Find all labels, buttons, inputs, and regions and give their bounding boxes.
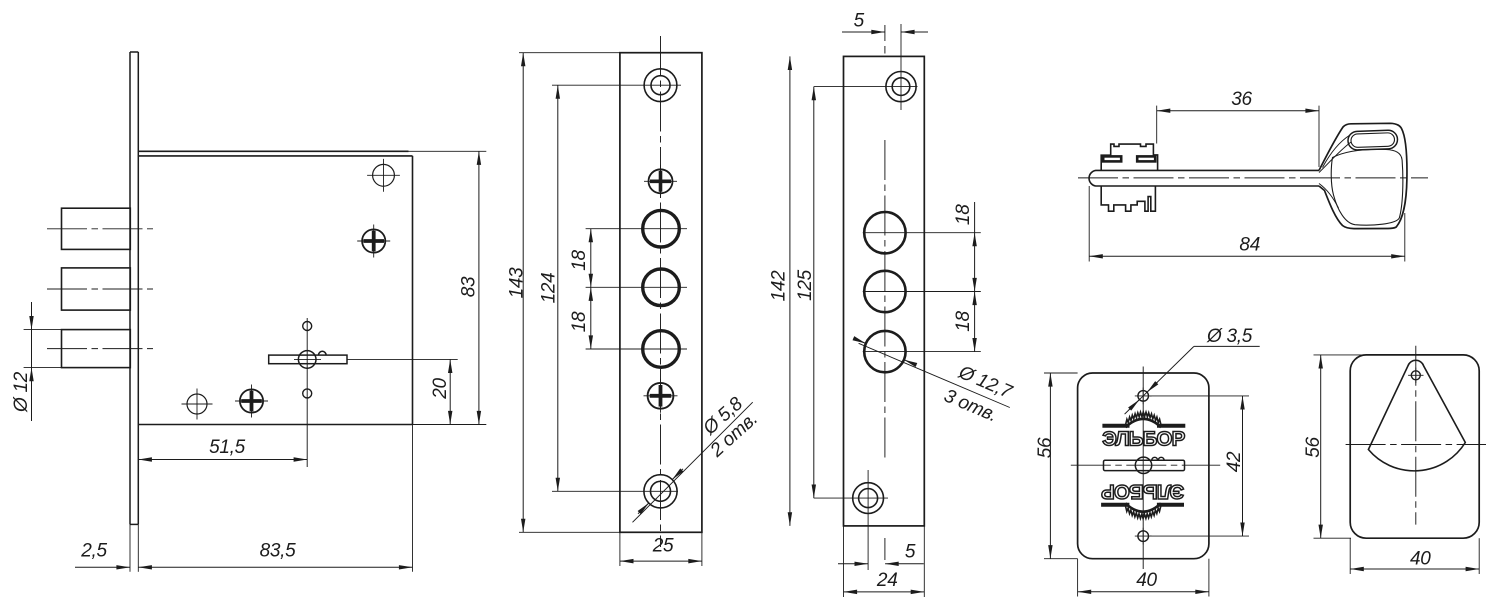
svg-text:25: 25 — [652, 535, 674, 556]
svg-text:51,5: 51,5 — [209, 437, 246, 458]
svg-text:56: 56 — [1303, 437, 1324, 458]
svg-text:24: 24 — [876, 570, 898, 591]
svg-text:40: 40 — [1410, 549, 1431, 570]
svg-text:18: 18 — [569, 311, 590, 332]
svg-text:83: 83 — [459, 276, 480, 297]
svg-text:18: 18 — [953, 204, 974, 225]
svg-text:142: 142 — [769, 270, 790, 302]
svg-text:Ø 12: Ø 12 — [11, 371, 32, 413]
svg-text:5: 5 — [854, 11, 865, 32]
svg-text:143: 143 — [507, 267, 528, 299]
svg-text:124: 124 — [539, 273, 560, 304]
svg-text:18: 18 — [569, 250, 590, 271]
svg-text:36: 36 — [1231, 89, 1252, 110]
svg-text:ЭЛЬБОР: ЭЛЬБОР — [1102, 428, 1185, 451]
svg-text:2,5: 2,5 — [80, 541, 107, 562]
svg-text:125: 125 — [795, 269, 816, 301]
svg-text:84: 84 — [1239, 234, 1260, 255]
svg-text:83,5: 83,5 — [260, 541, 297, 562]
svg-text:40: 40 — [1136, 570, 1157, 591]
svg-text:42: 42 — [1224, 451, 1245, 472]
svg-text:5: 5 — [905, 542, 916, 563]
svg-text:56: 56 — [1035, 437, 1056, 458]
svg-text:20: 20 — [430, 378, 451, 400]
svg-text:18: 18 — [953, 311, 974, 332]
svg-text:Ø 3,5: Ø 3,5 — [1206, 326, 1253, 347]
